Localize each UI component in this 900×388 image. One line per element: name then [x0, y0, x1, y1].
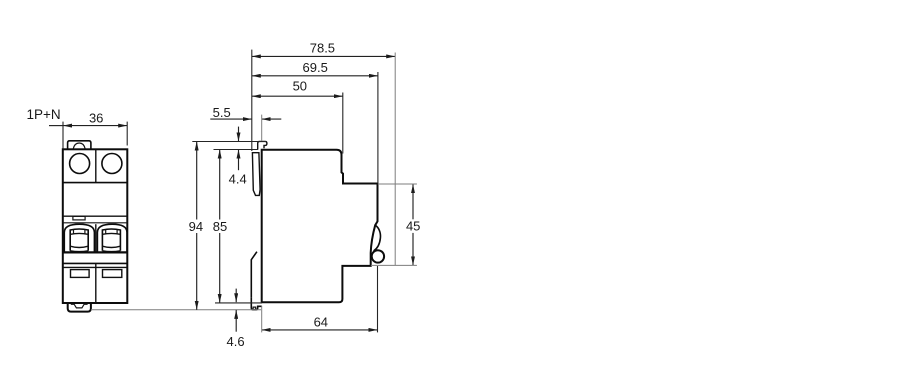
- breaker front body outline: [63, 149, 128, 303]
- dim 36 line: [63, 125, 127, 127]
- ext 64 left: [261, 306, 263, 333]
- toggle handle left: [70, 229, 88, 252]
- ext 69.5 right: [377, 72, 379, 183]
- terminal window right: [103, 270, 122, 278]
- bottom clip flag: [251, 252, 257, 298]
- dim 45 upper segment: [412, 184, 414, 219]
- ext 5.5: [261, 115, 263, 141]
- dim 64 line: [262, 329, 378, 331]
- dim 50 line: [252, 95, 343, 97]
- terminal window left: [71, 270, 90, 278]
- dim 94 upper segment: [196, 142, 198, 220]
- dim 36 leader overshoot: [49, 125, 63, 127]
- dim 45 lower segment: [412, 233, 414, 265]
- svg-text:50: 50: [293, 79, 307, 94]
- dim 4.6 upper arrow: [235, 289, 237, 303]
- svg-text:4.4: 4.4: [229, 172, 247, 187]
- ext clip bottom level: [91, 309, 261, 311]
- toggle arch right: [97, 224, 127, 252]
- mid face line: [63, 215, 128, 217]
- ext body bottom level: [215, 302, 262, 304]
- ext 78.5 right: [394, 53, 396, 266]
- dim 36 ext left: [62, 122, 64, 149]
- pole divider lower: [95, 263, 97, 303]
- bottom tab notch: [71, 304, 88, 308]
- DIN clip slider: [252, 153, 260, 196]
- dim 4.4 lower arrow: [238, 150, 240, 171]
- ext body top level: [214, 149, 259, 151]
- dim 69.5 line: [252, 75, 378, 77]
- toggle section top line: [63, 222, 128, 224]
- dim 4.6 lower arrow: [235, 310, 237, 332]
- dim 78.5 line: [252, 55, 395, 57]
- terminal screw circle right: [102, 154, 122, 174]
- svg-text:64: 64: [314, 315, 328, 330]
- lower band line 2: [63, 266, 128, 268]
- bottom tab: [68, 303, 91, 312]
- dim 85 upper segment: [219, 150, 221, 220]
- dim 5.5 left arrow: [210, 118, 252, 120]
- pole divider upper: [95, 149, 97, 182]
- ext 45 top: [378, 183, 417, 185]
- pole divider toggle area: [95, 224, 97, 252]
- dim 94 lower segment: [196, 233, 198, 310]
- section line under screws: [63, 182, 128, 184]
- top DIN clip hook: [258, 141, 267, 149]
- dim 5.5 right arrow: [262, 118, 282, 120]
- svg-text:4.6: 4.6: [227, 334, 245, 349]
- svg-text:78.5: 78.5: [310, 41, 335, 56]
- lower band line 1: [63, 262, 128, 264]
- bottom clip foot: [251, 297, 261, 309]
- top mounting tab: [68, 141, 91, 149]
- svg-text:5.5: 5.5: [213, 105, 231, 120]
- ext left top dims: [251, 50, 253, 151]
- svg-text:1P+N: 1P+N: [27, 107, 61, 122]
- dim 4.4 upper arrow: [238, 127, 240, 142]
- ext top clip level: [192, 141, 267, 143]
- ext 50 right: [342, 93, 344, 154]
- toggle section bottom line: [63, 251, 128, 253]
- bottom clip foot notch: [253, 307, 256, 310]
- dim 36 ext right: [126, 122, 128, 146]
- side profile outline: [262, 150, 378, 302]
- toggle end circle: [372, 250, 384, 262]
- svg-text:36: 36: [89, 110, 103, 125]
- ext 45 bottom: [371, 264, 417, 266]
- top tab dome: [73, 143, 85, 149]
- label window: [73, 216, 85, 220]
- dim 85 lower segment: [219, 233, 221, 303]
- svg-text:45: 45: [406, 218, 420, 233]
- ext 64 right: [377, 266, 379, 332]
- toggle handle right: [102, 229, 120, 252]
- svg-text:69.5: 69.5: [303, 60, 328, 75]
- toggle leaf outer arc: [374, 225, 381, 251]
- svg-text:85: 85: [213, 219, 227, 234]
- toggle arch left: [64, 224, 94, 252]
- svg-text:94: 94: [189, 219, 203, 234]
- terminal screw circle left: [70, 154, 90, 174]
